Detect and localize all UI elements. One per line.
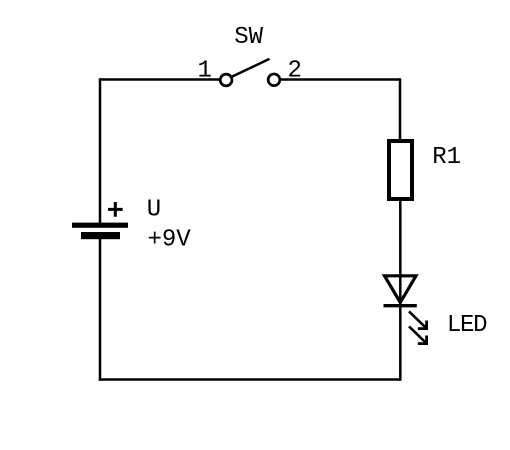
wire left vertical lower (battery - to bottom) [99,239,102,381]
LED light arrow 1 [409,311,427,328]
wire bottom horizontal [99,378,402,381]
battery U positive plate (long bar) [72,223,128,228]
battery plus sign [108,202,123,217]
wire top-right horizontal (switch pin 2 to resistor) [280,78,400,81]
LED light arrow 2 [409,326,427,343]
LED triangle (anode) [385,276,417,303]
switch SW pin 2 terminal circle [268,74,280,86]
svg-text:2: 2 [288,58,302,85]
svg-text:+9V: +9V [148,227,192,254]
wire top-left horizontal (battery to switch pin 1) [100,78,220,81]
wire right vertical middle (resistor to LED) [399,199,402,305]
svg-text:R1: R1 [432,144,461,171]
switch SW lever [232,59,269,77]
resistor R1 body [389,141,412,199]
wire right vertical upper (to resistor R1) [399,78,402,141]
svg-text:U: U [147,197,161,224]
LED cathode bar [384,304,417,307]
svg-text:LED: LED [447,312,487,339]
wire left vertical upper (switch to battery +) [99,78,102,223]
battery U negative plate (short thick bar) [81,232,120,239]
wire right vertical lower (LED cathode to bottom) [399,305,402,381]
svg-text:1: 1 [198,58,212,85]
svg-text:SW: SW [234,24,263,51]
switch SW pin 1 terminal circle [220,74,232,86]
